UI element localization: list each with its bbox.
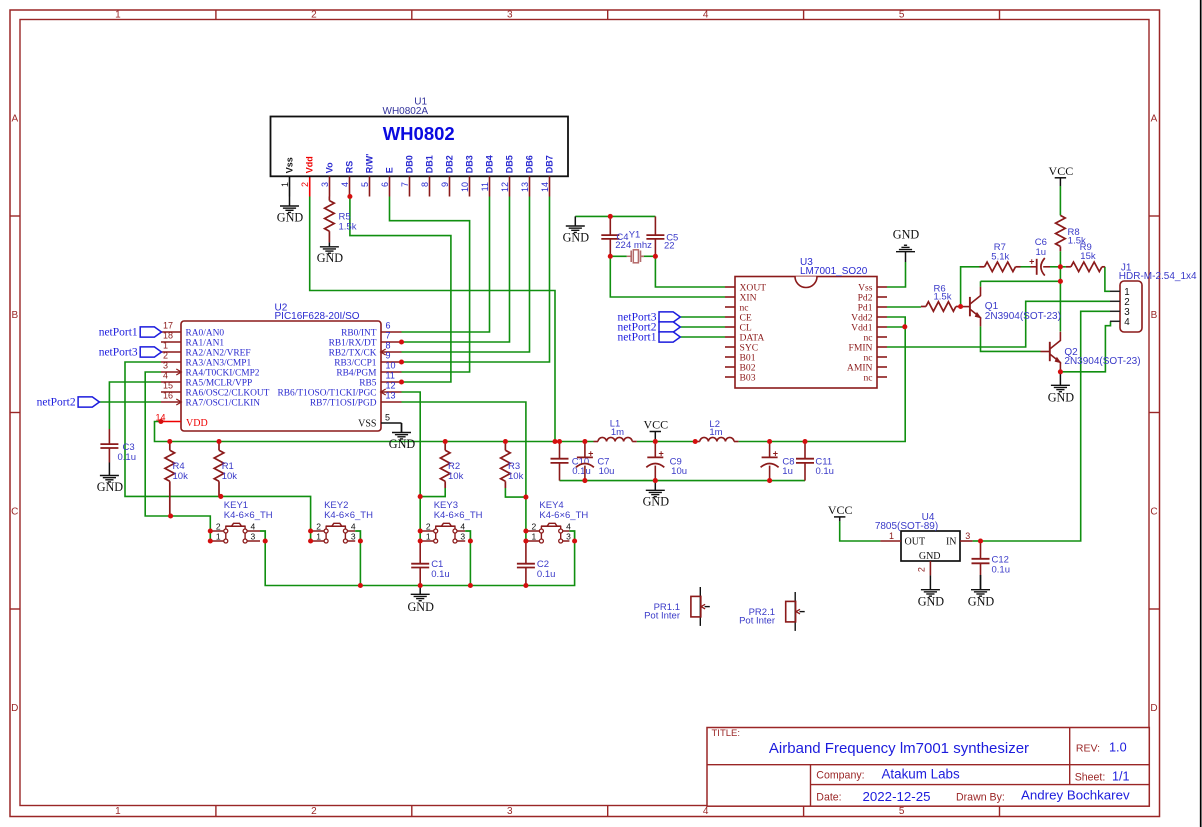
svg-text:2022-12-25: 2022-12-25 [863, 789, 931, 804]
svg-text:DB7: DB7 [544, 155, 554, 173]
svg-text:2: 2 [311, 806, 317, 817]
junction [802, 439, 807, 444]
svg-text:E: E [384, 167, 394, 173]
wire [887, 326, 905, 328]
svg-text:5: 5 [360, 182, 370, 187]
svg-text:DB3: DB3 [464, 155, 474, 173]
junction [216, 439, 221, 444]
svg-text:1: 1 [280, 182, 290, 187]
junction [693, 439, 698, 444]
wire [420, 488, 445, 497]
power VCC [643, 418, 668, 442]
junction [168, 513, 173, 518]
junction [347, 194, 352, 199]
svg-text:Airband Frequency lm7001 synth: Airband Frequency lm7001 synthesizer [769, 740, 1029, 757]
power VCC [828, 503, 853, 521]
svg-text:GND: GND [919, 551, 941, 562]
svg-text:1.0: 1.0 [1109, 741, 1127, 755]
capacitor C2 0.1u [517, 541, 556, 586]
svg-text:4: 4 [1124, 317, 1130, 328]
svg-text:5: 5 [899, 806, 905, 817]
svg-text:netPort3: netPort3 [99, 347, 138, 359]
junction [308, 528, 313, 533]
svg-text:DB1: DB1 [424, 155, 434, 173]
capacitor C1 0.1u [411, 541, 450, 586]
junction [1058, 279, 1063, 284]
net port netPort3 [99, 347, 162, 359]
junction [399, 359, 404, 364]
wire [981, 280, 1061, 282]
svg-text:RA4/T0CKI/CMP2: RA4/T0CKI/CMP2 [186, 369, 260, 379]
wire [402, 197, 510, 343]
svg-text:RA2/AN2/VREF: RA2/AN2/VREF [186, 349, 251, 359]
svg-text:RS: RS [344, 161, 354, 174]
svg-text:3: 3 [251, 532, 256, 542]
wire [125, 362, 311, 541]
ground [968, 575, 995, 609]
junction [1058, 369, 1063, 374]
wire [402, 197, 530, 353]
junction [523, 528, 528, 533]
svg-text:18: 18 [163, 330, 173, 340]
svg-text:14: 14 [540, 182, 550, 192]
junction [503, 439, 508, 444]
svg-text:REV:: REV: [1076, 742, 1100, 754]
capacitor C5 22 [646, 216, 678, 256]
svg-text:4: 4 [566, 522, 571, 532]
wire [887, 262, 906, 287]
junction [608, 254, 613, 259]
wire [1105, 267, 1110, 292]
junction [582, 478, 587, 483]
junction [418, 583, 423, 588]
svg-text:A: A [11, 113, 18, 124]
svg-text:B: B [1151, 310, 1158, 321]
svg-text:RA6/OSC2/CLKOUT: RA6/OSC2/CLKOUT [186, 389, 270, 399]
junction [653, 478, 658, 483]
capacitor C6 1u [1029, 237, 1050, 276]
svg-text:OUT: OUT [905, 536, 926, 547]
net port netPort3 [618, 312, 681, 324]
capacitor C7 10u [576, 442, 615, 481]
svg-text:1.5k: 1.5k [934, 291, 952, 302]
svg-text:K4-6×6_TH: K4-6×6_TH [434, 510, 483, 521]
capacitor C9 10u [646, 442, 687, 481]
svg-text:+: + [658, 448, 663, 458]
inductor L2 1m [695, 419, 738, 442]
svg-text:13: 13 [386, 390, 396, 400]
ground [407, 586, 434, 614]
svg-text:3: 3 [460, 532, 465, 542]
svg-text:0.1u: 0.1u [537, 569, 556, 580]
junction [358, 538, 363, 543]
IC U2 PIC16F628-20I/SO [156, 302, 402, 431]
svg-text:1u: 1u [782, 466, 793, 477]
svg-text:1.5k: 1.5k [339, 222, 357, 233]
wire [1060, 266, 1066, 268]
wire [973, 540, 981, 542]
svg-text:15: 15 [163, 380, 173, 390]
svg-text:9: 9 [386, 350, 391, 360]
wire [637, 441, 696, 443]
junction [399, 339, 404, 344]
junction [767, 439, 772, 444]
ground [918, 575, 945, 608]
svg-text:RB4/PGM: RB4/PGM [336, 369, 377, 379]
svg-text:22: 22 [664, 241, 675, 252]
svg-text:D: D [11, 703, 18, 714]
junction [358, 583, 363, 588]
svg-text:1: 1 [532, 532, 537, 542]
ground [563, 216, 590, 244]
net port netPort2 [37, 397, 100, 409]
svg-text:Pot Inter: Pot Inter [739, 616, 775, 627]
svg-text:VDD: VDD [186, 418, 208, 429]
svg-text:1: 1 [889, 531, 894, 541]
switch KEY1 K4-6x6_TH [210, 500, 272, 543]
svg-text:RA5/MCLR/VPP: RA5/MCLR/VPP [186, 379, 253, 389]
svg-text:0.1u: 0.1u [118, 452, 137, 463]
svg-text:Company:: Company: [816, 769, 864, 781]
svg-text:10k: 10k [173, 471, 189, 482]
svg-text:C: C [11, 506, 18, 517]
svg-text:GND: GND [277, 210, 304, 224]
svg-text:4: 4 [251, 522, 256, 532]
svg-text:6: 6 [386, 320, 391, 330]
wire [680, 326, 725, 328]
junction [653, 439, 658, 444]
wire [680, 316, 725, 318]
svg-text:RB6/T1OSO/T1CKI/PGC: RB6/T1OSO/T1CKI/PGC [278, 389, 377, 399]
svg-text:2: 2 [163, 350, 168, 360]
junction [958, 304, 963, 309]
svg-text:1: 1 [426, 532, 431, 542]
svg-text:RA3/AN3/CMP1: RA3/AN3/CMP1 [186, 359, 252, 369]
wire [887, 306, 921, 308]
wire [359, 541, 361, 586]
svg-text:4: 4 [340, 182, 350, 187]
svg-text:1u: 1u [1036, 247, 1047, 258]
wire [350, 197, 451, 383]
junction [582, 439, 587, 444]
svg-text:Andrey Bochkarev: Andrey Bochkarev [1021, 787, 1130, 802]
svg-text:5: 5 [899, 9, 905, 20]
wire [961, 267, 980, 307]
svg-text:10: 10 [460, 182, 470, 192]
junction [443, 439, 448, 444]
svg-text:6: 6 [380, 182, 390, 187]
wire [1059, 267, 1061, 332]
svg-text:4: 4 [703, 806, 709, 817]
svg-text:3: 3 [965, 531, 970, 541]
svg-text:A: A [1151, 113, 1158, 124]
ground [97, 463, 124, 494]
svg-text:2N3904(SOT-23): 2N3904(SOT-23) [985, 311, 1061, 322]
wire [610, 255, 627, 257]
junction [218, 494, 223, 499]
svg-text:RA0/AN0: RA0/AN0 [186, 329, 225, 339]
ground [1048, 372, 1075, 405]
svg-text:B: B [11, 310, 18, 321]
svg-text:TITLE:: TITLE: [712, 728, 741, 739]
svg-text:Drawn By:: Drawn By: [956, 792, 1005, 804]
svg-text:2: 2 [426, 522, 431, 532]
svg-text:7805(SOT-89): 7805(SOT-89) [875, 521, 938, 532]
wire [575, 215, 655, 217]
resistor R5 1.5k [325, 197, 357, 243]
svg-text:LM7001_SO20: LM7001_SO20 [800, 266, 868, 277]
svg-text:RB0/INT: RB0/INT [341, 329, 377, 339]
svg-text:DB6: DB6 [524, 155, 534, 173]
svg-text:RB7/T1OSI/PGD: RB7/T1OSI/PGD [310, 399, 377, 409]
svg-text:10k: 10k [448, 471, 464, 482]
svg-text:GND: GND [407, 600, 434, 614]
junction [557, 439, 562, 444]
svg-text:DB0: DB0 [404, 155, 414, 173]
wire [145, 372, 210, 541]
svg-text:10: 10 [386, 360, 396, 370]
capacitor C8 1u [761, 442, 795, 481]
svg-text:netPort1: netPort1 [618, 332, 657, 344]
svg-text:4: 4 [351, 522, 356, 532]
svg-text:3: 3 [507, 9, 513, 20]
junction [1058, 264, 1063, 269]
svg-text:GND: GND [918, 595, 945, 609]
svg-text:RB5: RB5 [359, 379, 377, 389]
wire [981, 326, 1041, 351]
svg-text:22: 22 [615, 240, 626, 251]
svg-text:10u: 10u [671, 466, 687, 477]
svg-text:7: 7 [400, 182, 410, 187]
svg-text:+: + [588, 448, 593, 458]
svg-text:WH0802A: WH0802A [383, 106, 429, 117]
ground [317, 242, 344, 265]
svg-text:3: 3 [566, 532, 571, 542]
junction [552, 439, 557, 444]
IC U4 7805(SOT-89) [875, 512, 973, 575]
svg-text:Vss: Vss [284, 157, 294, 173]
wire [981, 311, 1111, 541]
svg-text:Y1: Y1 [629, 229, 641, 240]
wire [155, 422, 594, 442]
svg-text:4: 4 [703, 9, 709, 20]
wire [310, 197, 555, 442]
svg-text:0.1u: 0.1u [572, 466, 591, 477]
svg-text:netPort1: netPort1 [99, 327, 138, 339]
svg-text:7: 7 [386, 330, 391, 340]
junction [468, 583, 473, 588]
wire [1050, 266, 1060, 268]
svg-text:RA7/OSC1/CLKIN: RA7/OSC1/CLKIN [186, 399, 261, 409]
svg-text:10u: 10u [599, 466, 615, 477]
svg-text:17: 17 [163, 320, 173, 330]
svg-text:GND: GND [1048, 390, 1075, 404]
svg-text:Atakum Labs: Atakum Labs [882, 767, 960, 782]
wire [641, 255, 656, 257]
resistor R1 10k [214, 442, 237, 497]
svg-text:K4-6×6_TH: K4-6×6_TH [324, 510, 373, 521]
svg-text:3: 3 [163, 360, 168, 370]
junction [167, 439, 172, 444]
svg-text:8: 8 [386, 340, 391, 350]
svg-text:4: 4 [163, 370, 168, 380]
wire [402, 197, 490, 333]
svg-text:1: 1 [115, 9, 121, 20]
potentiometer PR1.1 Pot Inter [644, 587, 710, 626]
junction [399, 379, 404, 384]
resistor R8 1.5k [1056, 215, 1086, 251]
svg-text:K4-6×6_TH: K4-6×6_TH [224, 510, 273, 521]
junction [653, 254, 658, 259]
wire [1021, 266, 1031, 268]
inductor L1 1m [594, 418, 637, 441]
svg-text:1m: 1m [709, 427, 722, 438]
wire [655, 256, 725, 287]
svg-text:2: 2 [300, 182, 310, 187]
svg-text:GND: GND [389, 437, 416, 451]
svg-text:4: 4 [460, 522, 465, 532]
power VCC [1049, 164, 1074, 186]
wire [390, 197, 470, 373]
svg-text:0.1u: 0.1u [815, 466, 834, 477]
svg-text:10k: 10k [222, 471, 238, 482]
svg-text:B03: B03 [740, 373, 756, 384]
switch KEY4 K4-6x6_TH [526, 500, 588, 543]
wire [402, 392, 421, 541]
svg-text:Sheet:: Sheet: [1075, 772, 1106, 784]
wire [309, 176, 311, 196]
svg-text:2: 2 [316, 522, 321, 532]
window edge line [1200, 0, 1202, 827]
junction [208, 538, 213, 543]
ground [893, 227, 920, 262]
wire [402, 197, 550, 363]
wire [680, 336, 725, 338]
svg-text:+: + [773, 448, 778, 458]
svg-text:+: + [1029, 257, 1034, 267]
svg-text:10k: 10k [508, 471, 524, 482]
capacitor C11 0.1u [796, 442, 834, 481]
resistor R6 1.5k [921, 283, 961, 311]
IC U1 WH0802A LCD module [271, 96, 569, 196]
crystal Y1 4 mhz [626, 229, 652, 262]
junction [263, 538, 268, 543]
ground [389, 423, 416, 451]
junction [208, 528, 213, 533]
wire [1059, 186, 1061, 215]
svg-text:GND: GND [317, 251, 344, 265]
svg-text:GND: GND [563, 230, 590, 244]
svg-text:IN: IN [946, 536, 957, 547]
net port netPort1 [618, 332, 681, 344]
wire [109, 382, 161, 429]
wire [469, 541, 471, 586]
svg-text:Vdd: Vdd [304, 156, 314, 173]
svg-text:15k: 15k [1080, 251, 1096, 262]
capacitor C3 0.1u [100, 429, 136, 463]
capacitor C4 22 [601, 216, 628, 256]
svg-text:1: 1 [163, 340, 168, 350]
svg-text:2: 2 [532, 522, 537, 532]
potentiometer PR2.1 Pot Inter [739, 592, 805, 631]
svg-text:GND: GND [968, 595, 995, 609]
junction [523, 495, 528, 500]
svg-text:Date:: Date: [816, 792, 841, 804]
svg-text:GND: GND [97, 480, 124, 494]
svg-text:5: 5 [385, 412, 390, 422]
svg-text:PIC16F628-20I/SO: PIC16F628-20I/SO [275, 311, 360, 322]
junction [418, 528, 423, 533]
wire [505, 488, 526, 497]
resistor R7 5.1k [980, 242, 1021, 272]
svg-text:Vo: Vo [324, 162, 334, 173]
svg-text:RB3/CCP1: RB3/CCP1 [334, 359, 377, 369]
wire [980, 281, 982, 287]
svg-text:1: 1 [216, 532, 221, 542]
svg-text:netPort2: netPort2 [37, 397, 76, 409]
svg-text:3: 3 [507, 806, 513, 817]
junction [767, 478, 772, 483]
svg-text:2: 2 [311, 9, 317, 20]
wire [560, 480, 806, 482]
svg-text:Pot Inter: Pot Inter [644, 611, 680, 622]
wire [99, 401, 161, 403]
svg-text:GND: GND [643, 495, 670, 509]
IC U3 LM7001_SO20 [725, 257, 887, 388]
wire [1060, 321, 1110, 372]
svg-text:GND: GND [893, 227, 920, 241]
svg-text:11: 11 [480, 182, 490, 191]
svg-text:RB2/TX/CK: RB2/TX/CK [329, 349, 377, 359]
capacitor C10 0.1u [551, 442, 591, 481]
svg-text:4 mhz: 4 mhz [626, 240, 652, 251]
svg-text:12: 12 [386, 380, 396, 390]
svg-text:9: 9 [440, 182, 450, 187]
junction [902, 324, 907, 329]
svg-text:R/W': R/W' [364, 154, 374, 174]
junction [523, 538, 528, 543]
wire [265, 541, 574, 586]
svg-text:VCC: VCC [1049, 164, 1074, 178]
svg-text:DB5: DB5 [504, 155, 514, 173]
junction [418, 538, 423, 543]
switch KEY3 K4-6x6_TH [420, 500, 482, 543]
svg-text:D: D [1150, 703, 1157, 714]
junction [978, 538, 983, 543]
svg-text:VCC: VCC [828, 503, 853, 517]
junction [523, 583, 528, 588]
svg-text:1/1: 1/1 [1112, 770, 1130, 784]
resistor R3 10k [501, 442, 524, 489]
wire [1059, 251, 1061, 267]
junction [468, 538, 473, 543]
svg-text:1m: 1m [611, 427, 624, 438]
svg-text:VSS: VSS [358, 419, 376, 430]
svg-text:16: 16 [163, 390, 173, 400]
junction [418, 494, 423, 499]
wire [402, 402, 526, 541]
svg-text:VCC: VCC [643, 418, 668, 432]
wire [887, 301, 1110, 347]
svg-text:3: 3 [351, 532, 356, 542]
svg-text:3: 3 [320, 182, 330, 187]
svg-text:2N3904(SOT-23): 2N3904(SOT-23) [1064, 356, 1140, 367]
title block [707, 728, 1149, 807]
ground [277, 197, 304, 225]
transistor Q2 2N3904 [1041, 332, 1141, 372]
svg-text:12: 12 [500, 182, 510, 192]
transistor Q1 2N3904 [961, 287, 1061, 327]
